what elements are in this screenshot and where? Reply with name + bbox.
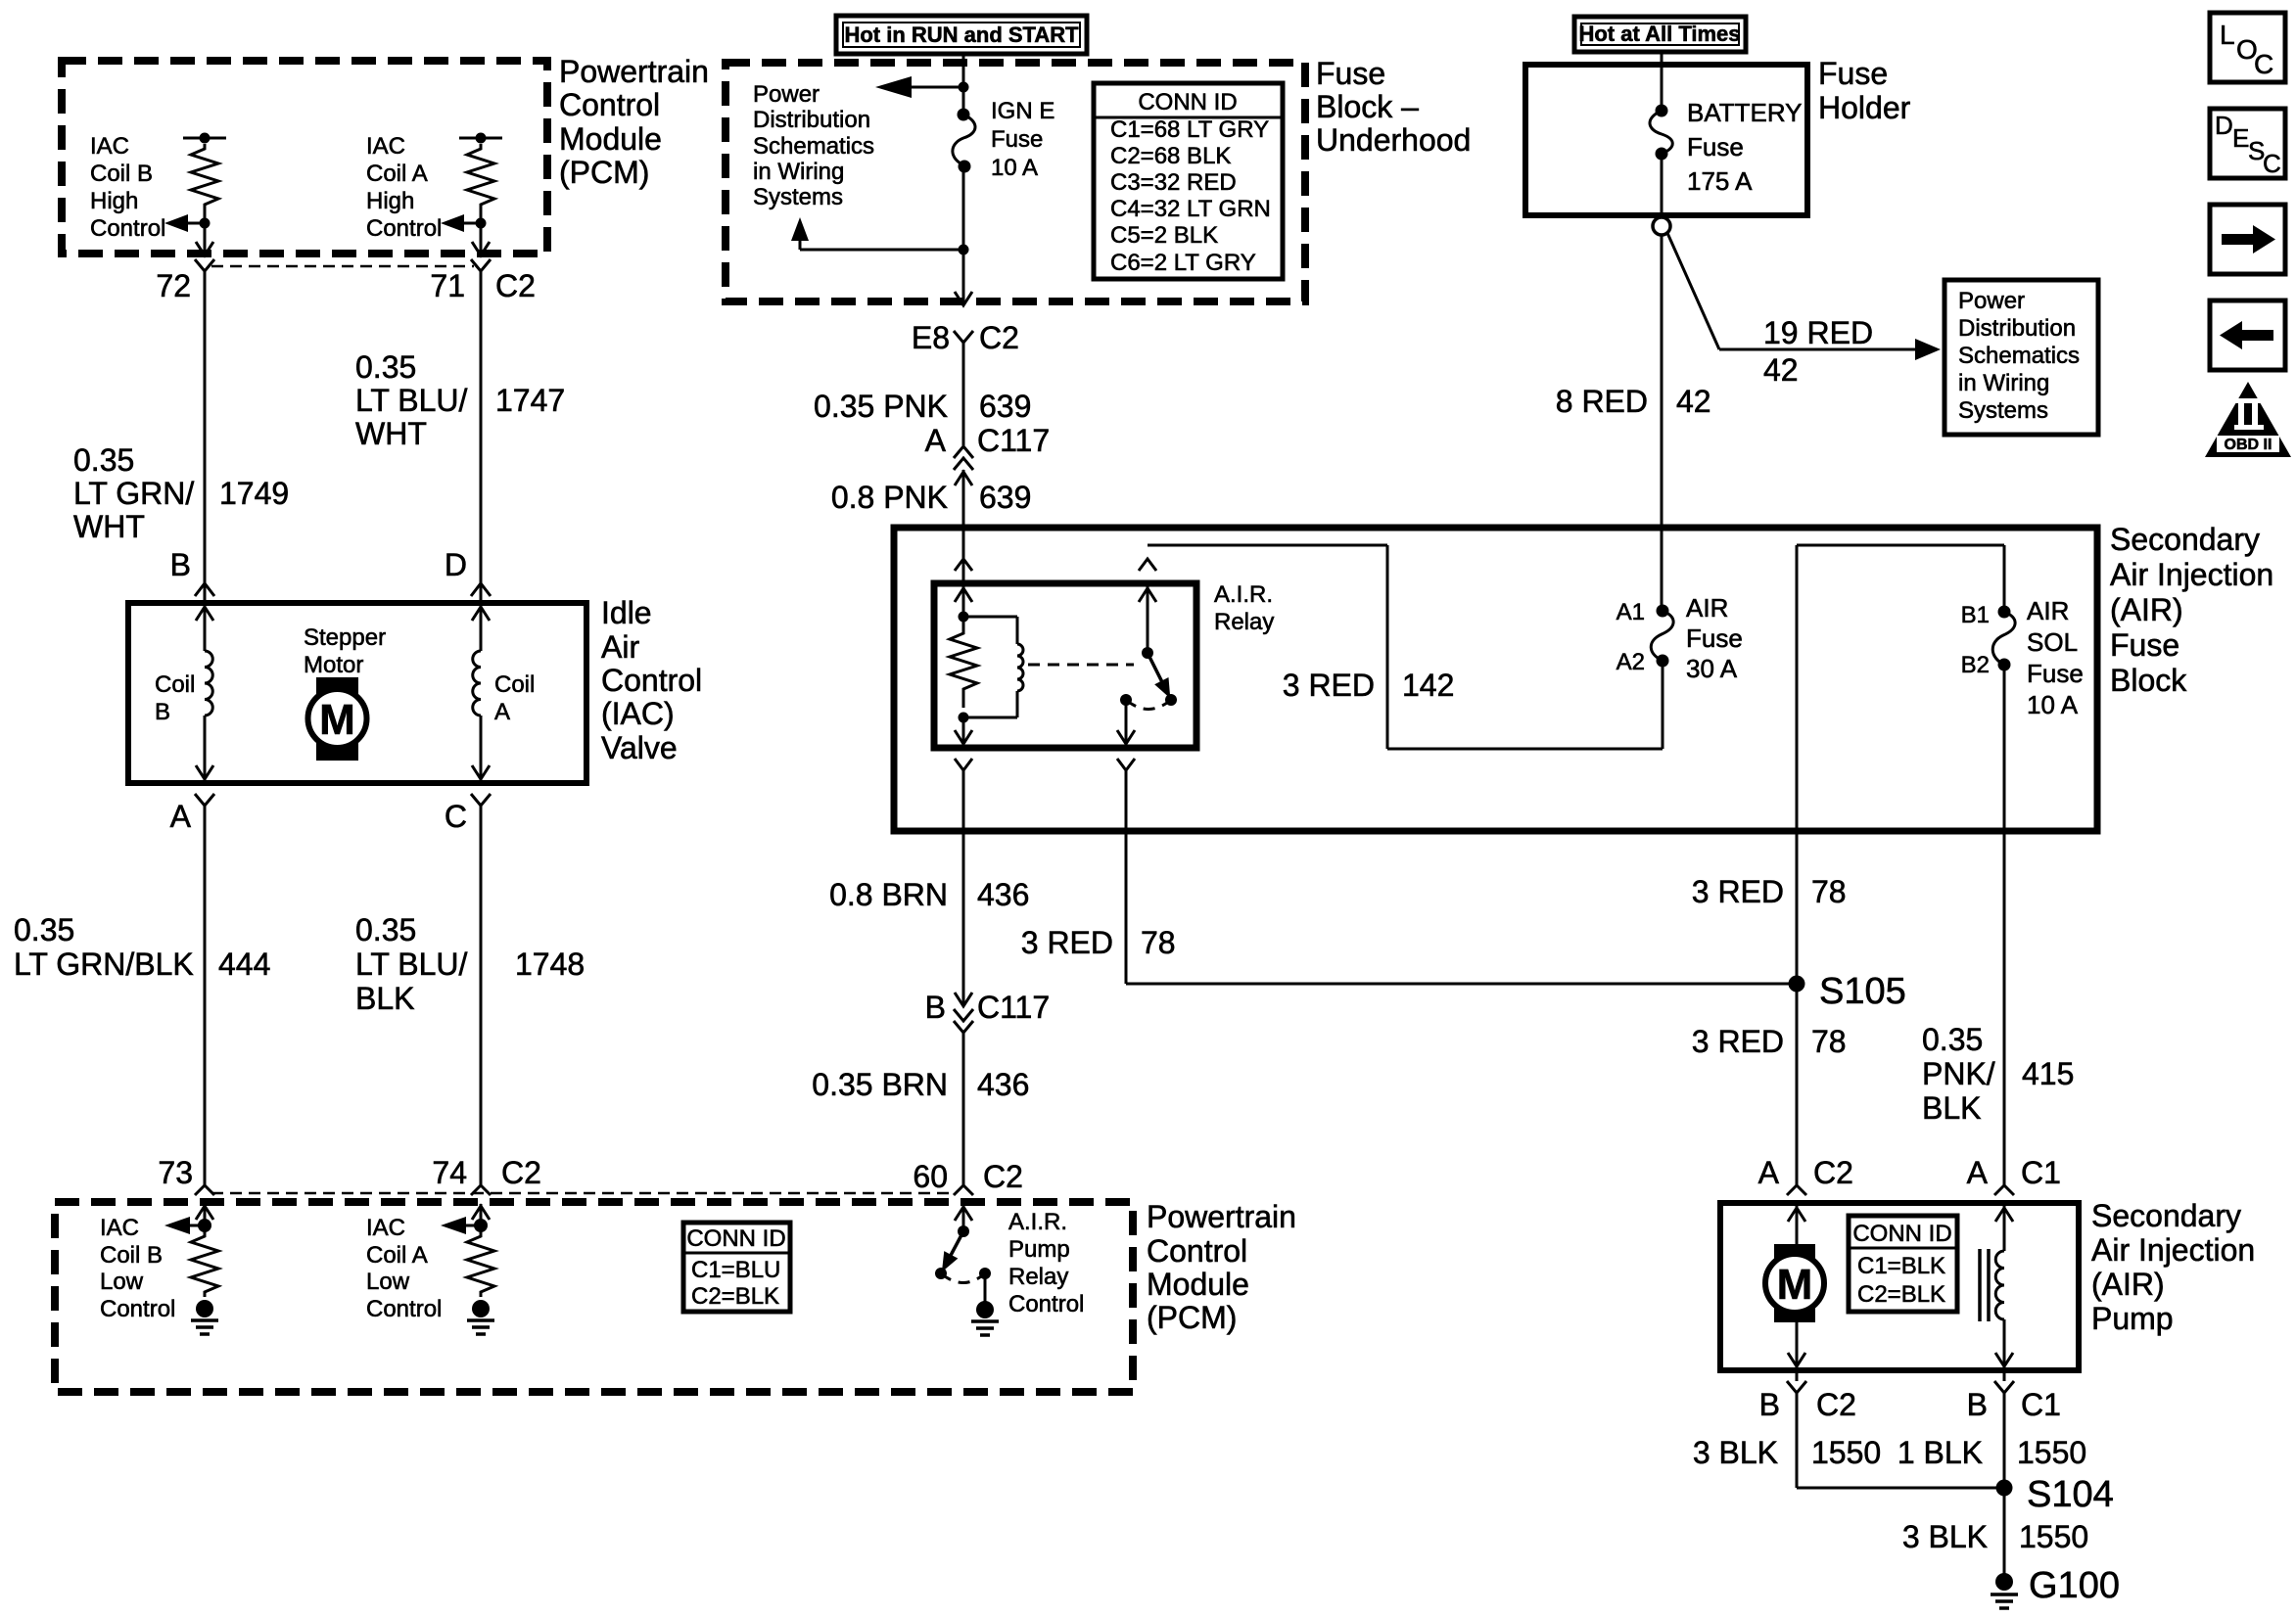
svg-text:Systems: Systems bbox=[753, 184, 843, 210]
svg-text:Fuse: Fuse bbox=[1818, 56, 1888, 91]
relay coil exit arrow bbox=[955, 717, 972, 748]
label Stepper Motor bbox=[304, 624, 386, 678]
svg-text:Low: Low bbox=[366, 1269, 410, 1295]
svg-text:S105: S105 bbox=[1819, 971, 1906, 1012]
svg-text:C: C bbox=[2254, 49, 2273, 79]
svg-text:71: 71 bbox=[430, 268, 465, 303]
Secondary Air Injection (AIR) Fuse Block box bbox=[894, 528, 2097, 831]
svg-text:Control: Control bbox=[1147, 1233, 1247, 1269]
svg-text:Secondary: Secondary bbox=[2110, 522, 2260, 557]
A.I.R. relay box bbox=[934, 583, 1196, 748]
relay coil circuit: entry arrow bbox=[955, 583, 972, 623]
connector E8 / C2 bbox=[912, 320, 1019, 355]
svg-text:Block: Block bbox=[2110, 663, 2187, 698]
pump solenoid feed arrow (C1) bbox=[1995, 1203, 2013, 1251]
svg-text:Holder: Holder bbox=[1818, 90, 1911, 125]
wire 1749 (72 to B) bbox=[73, 271, 289, 601]
svg-text:B: B bbox=[155, 699, 170, 725]
svg-text:444: 444 bbox=[218, 947, 270, 982]
arrow: power distribution link (left) bbox=[875, 76, 969, 98]
svg-text:A: A bbox=[1967, 1155, 1989, 1190]
svg-text:in Wiring: in Wiring bbox=[1958, 370, 2049, 396]
wire 1550 (3 BLK) to ground bbox=[1902, 1519, 2088, 1554]
wire fuse to junction ring bbox=[1661, 154, 1663, 217]
svg-text:Hot at All Times: Hot at All Times bbox=[1578, 22, 1740, 46]
svg-text:Coil B: Coil B bbox=[90, 161, 153, 187]
connector C2 pin A (pump) bbox=[1758, 1155, 1853, 1195]
svg-text:B2: B2 bbox=[1961, 652, 1990, 678]
connector chevron below relay (switch) bbox=[1117, 759, 1135, 770]
svg-text:BLK: BLK bbox=[355, 981, 414, 1016]
svg-text:Fuse: Fuse bbox=[2027, 659, 2084, 688]
wire: relay coil output to PCM (inside box) bbox=[962, 770, 965, 1006]
svg-text:0.35 BRN: 0.35 BRN bbox=[812, 1067, 948, 1102]
svg-text:C117: C117 bbox=[977, 990, 1050, 1025]
Secondary Air Injection (AIR) Pump box bbox=[1720, 1203, 2079, 1370]
svg-text:(PCM): (PCM) bbox=[1147, 1300, 1237, 1335]
svg-text:1748: 1748 bbox=[515, 947, 585, 982]
label: A.I.R. Relay bbox=[1214, 581, 1274, 635]
svg-text:E: E bbox=[2232, 123, 2249, 153]
CONN ID table (PCM) bbox=[683, 1223, 790, 1312]
svg-text:C3=32 RED: C3=32 RED bbox=[1110, 169, 1237, 196]
svg-text:1747: 1747 bbox=[495, 383, 565, 418]
wire 415 (0.35 PNK/BLK) bbox=[1922, 1022, 2074, 1126]
wire 42 (19 RED) to power distribution bbox=[1667, 233, 1941, 388]
svg-text:A: A bbox=[1758, 1155, 1780, 1190]
svg-text:142: 142 bbox=[1402, 668, 1454, 703]
svg-text:High: High bbox=[90, 188, 138, 214]
label: Fuse Holder bbox=[1818, 56, 1911, 125]
wire Hot to battery fuse bbox=[1661, 52, 1663, 111]
svg-text:73: 73 bbox=[158, 1155, 193, 1190]
wire: pin 72 exit with arrow bbox=[196, 223, 213, 255]
label: IAC Coil A High Control bbox=[366, 133, 442, 242]
svg-text:0.8 BRN: 0.8 BRN bbox=[829, 877, 948, 912]
svg-text:175 A: 175 A bbox=[1687, 166, 1753, 196]
svg-text:78: 78 bbox=[1811, 1024, 1847, 1059]
label: IAC Coil B High Control bbox=[90, 133, 165, 242]
wire: pin 71 exit with arrow bbox=[472, 223, 490, 255]
wire 1748 (C to 74) bbox=[355, 806, 585, 1185]
svg-text:SOL: SOL bbox=[2027, 627, 2078, 657]
svg-text:C2=BLK: C2=BLK bbox=[1857, 1281, 1945, 1308]
svg-text:A.I.R.: A.I.R. bbox=[1214, 581, 1273, 608]
svg-text:Fuse: Fuse bbox=[991, 126, 1043, 153]
wire 78 (3 RED) above S105 bbox=[1692, 874, 1847, 909]
svg-text:74: 74 bbox=[432, 1155, 467, 1190]
svg-text:Hot in RUN and START: Hot in RUN and START bbox=[844, 23, 1079, 47]
label: IAC Coil B Low Control bbox=[100, 1215, 175, 1322]
wire pin 73 entry arrow bbox=[196, 1204, 213, 1232]
svg-text:B: B bbox=[1759, 1387, 1780, 1422]
svg-text:0.35 PNK: 0.35 PNK bbox=[814, 389, 948, 424]
svg-text:Relay: Relay bbox=[1214, 609, 1274, 635]
svg-text:IAC: IAC bbox=[366, 1215, 405, 1241]
relay switch output arrow bbox=[1117, 700, 1135, 748]
svg-text:3 RED: 3 RED bbox=[1692, 874, 1784, 909]
coil A of IAC valve bbox=[472, 603, 490, 783]
arrow: Coil A High Control output bbox=[441, 214, 481, 232]
svg-text:8 RED: 8 RED bbox=[1556, 384, 1648, 419]
label: BATTERY Fuse 175 A bbox=[1687, 98, 1803, 196]
relay switch bbox=[1120, 583, 1177, 710]
svg-text:BATTERY: BATTERY bbox=[1687, 98, 1803, 127]
connector chevron below relay (coil) bbox=[955, 759, 972, 770]
svg-text:Distribution: Distribution bbox=[753, 107, 870, 133]
ground G100 bbox=[1991, 1565, 2120, 1608]
label: AIR SOL Fuse 10 A bbox=[2027, 596, 2084, 719]
label Coil B bbox=[155, 671, 195, 725]
wire 436 (0.35 BRN) bbox=[812, 1033, 1029, 1185]
svg-text:Control: Control bbox=[90, 215, 165, 242]
wire B2 output down bbox=[2003, 665, 2006, 1185]
svg-text:Control: Control bbox=[100, 1296, 175, 1322]
svg-text:Control: Control bbox=[1008, 1291, 1084, 1317]
pump motor feed arrow (C2) bbox=[1788, 1203, 1805, 1244]
svg-text:Power: Power bbox=[1958, 288, 2025, 314]
svg-text:High: High bbox=[366, 188, 414, 214]
svg-text:Coil: Coil bbox=[494, 671, 535, 698]
svg-text:Underhood: Underhood bbox=[1316, 122, 1471, 158]
PCM bottom dashed box bbox=[55, 1202, 1133, 1392]
relay actuation dashed link bbox=[1028, 664, 1134, 667]
terminal C of IAC valve bbox=[445, 794, 491, 834]
connector chevron above relay (switch feed) bbox=[1139, 559, 1156, 571]
svg-text:C1: C1 bbox=[2021, 1155, 2061, 1190]
fuse AIR 30 A bbox=[1617, 599, 1673, 675]
svg-text:CONN ID: CONN ID bbox=[686, 1225, 785, 1252]
svg-text:C1: C1 bbox=[2021, 1387, 2061, 1422]
wire 78 (3 RED) to S105 bbox=[1021, 925, 1797, 984]
motor M (AIR pump) bbox=[1765, 1244, 1824, 1322]
ground (A.I.R. pump relay control) bbox=[971, 1273, 999, 1335]
svg-text:(AIR): (AIR) bbox=[2091, 1267, 2165, 1302]
wire: relay switch output down bbox=[1125, 770, 1128, 984]
svg-text:3 BLK: 3 BLK bbox=[1693, 1435, 1778, 1470]
svg-text:Control: Control bbox=[366, 215, 442, 242]
svg-text:Block –: Block – bbox=[1316, 89, 1419, 124]
CONN ID table (pump) bbox=[1849, 1216, 1957, 1312]
svg-text:0.35: 0.35 bbox=[355, 912, 416, 947]
wire 60 entry to PCM bbox=[955, 1204, 972, 1231]
svg-text:C117: C117 bbox=[977, 423, 1050, 458]
wire A2 to 142 path bbox=[1662, 661, 1664, 749]
connector C117 A bbox=[925, 423, 1050, 485]
svg-text:72: 72 bbox=[156, 268, 191, 303]
svg-text:3 RED: 3 RED bbox=[1692, 1024, 1784, 1059]
svg-text:Motor: Motor bbox=[304, 652, 363, 678]
resistor IAC Coil A High (PCM internal) bbox=[459, 133, 502, 229]
svg-text:1550: 1550 bbox=[2019, 1519, 2088, 1554]
svg-text:A1: A1 bbox=[1617, 599, 1645, 625]
svg-text:Fuse: Fuse bbox=[1686, 624, 1743, 653]
Fuse Block - Underhood dashed box bbox=[726, 63, 1305, 301]
svg-text:60: 60 bbox=[913, 1159, 948, 1194]
svg-text:C2: C2 bbox=[501, 1155, 541, 1190]
svg-text:78: 78 bbox=[1811, 874, 1847, 909]
svg-text:IAC: IAC bbox=[100, 1215, 139, 1241]
wire 639 (0.8 PNK) bbox=[831, 470, 1032, 583]
svg-text:Module: Module bbox=[1147, 1267, 1249, 1302]
svg-text:Control: Control bbox=[366, 1296, 442, 1322]
svg-text:Control: Control bbox=[559, 87, 660, 122]
svg-text:C4=32 LT GRN: C4=32 LT GRN bbox=[1110, 196, 1271, 222]
wire IGN E fuse output bbox=[959, 166, 969, 301]
svg-text:Air Injection: Air Injection bbox=[2091, 1232, 2255, 1268]
splice S104 bbox=[1996, 1474, 2114, 1515]
label: Powertrain Control Module (PCM) top bbox=[559, 54, 709, 190]
resistor IAC Coil B Low bbox=[191, 1225, 218, 1297]
Hot in RUN and START box bbox=[836, 16, 1087, 54]
svg-text:IGN E: IGN E bbox=[991, 98, 1054, 124]
ground (IAC Coil B Low) bbox=[191, 1300, 218, 1334]
connector C1 pin A (pump) bbox=[1967, 1155, 2061, 1195]
wire 1550 (3 BLK) from pump motor bbox=[1693, 1393, 2004, 1488]
connector C2 pin 73 bbox=[158, 1155, 214, 1195]
wire 639 (0.35 PNK) bbox=[814, 343, 1031, 445]
junction ring node bbox=[1653, 217, 1670, 235]
svg-text:M: M bbox=[319, 696, 355, 744]
svg-text:3 BLK: 3 BLK bbox=[1902, 1519, 1988, 1554]
svg-text:B: B bbox=[1967, 1387, 1988, 1422]
svg-text:Powertrain: Powertrain bbox=[1147, 1199, 1296, 1234]
svg-text:C2: C2 bbox=[495, 268, 536, 303]
label: Secondary Air Injection (AIR) Pump bbox=[2091, 1198, 2255, 1336]
wire 78 (3 RED) below S105 bbox=[1692, 1024, 1847, 1059]
svg-text:A: A bbox=[494, 699, 510, 725]
svg-text:C2: C2 bbox=[983, 1159, 1023, 1194]
svg-text:LT GRN/BLK: LT GRN/BLK bbox=[14, 947, 194, 982]
arrow: power distribution link (lower) bbox=[791, 217, 963, 250]
DESC icon bbox=[2210, 109, 2285, 178]
svg-text:C: C bbox=[2263, 149, 2281, 178]
svg-text:AIR: AIR bbox=[2027, 596, 2069, 625]
svg-text:1749: 1749 bbox=[219, 476, 289, 511]
svg-text:C1=BLK: C1=BLK bbox=[1857, 1253, 1945, 1279]
svg-text:(PCM): (PCM) bbox=[559, 155, 649, 190]
IAC valve box bbox=[128, 603, 586, 783]
svg-text:C6=2 LT GRY: C6=2 LT GRY bbox=[1110, 250, 1256, 276]
svg-text:CONN ID: CONN ID bbox=[1852, 1221, 1951, 1247]
svg-text:in Wiring: in Wiring bbox=[753, 159, 844, 185]
svg-text:WHT: WHT bbox=[73, 509, 145, 544]
label: IAC Coil A Low Control bbox=[366, 1215, 442, 1322]
svg-text:Air: Air bbox=[601, 629, 639, 665]
svg-text:436: 436 bbox=[977, 877, 1029, 912]
svg-text:Relay: Relay bbox=[1008, 1264, 1068, 1290]
wire 42 (8 RED) battery feed bbox=[1556, 235, 1711, 528]
svg-text:10 A: 10 A bbox=[2027, 690, 2079, 719]
OBD II icon bbox=[2205, 382, 2291, 457]
svg-text:D: D bbox=[2215, 111, 2233, 140]
svg-text:Fuse: Fuse bbox=[2110, 627, 2179, 663]
resistor IAC Coil A Low bbox=[467, 1225, 494, 1297]
svg-text:Pump: Pump bbox=[2091, 1301, 2174, 1336]
svg-text:Control: Control bbox=[601, 663, 702, 698]
Hot at All Times box bbox=[1574, 17, 1746, 52]
svg-text:B: B bbox=[925, 990, 946, 1025]
svg-text:BLK: BLK bbox=[1922, 1090, 1981, 1126]
svg-text:C1=BLU: C1=BLU bbox=[691, 1257, 780, 1283]
fuse BATTERY 175 A bbox=[1650, 105, 1672, 161]
svg-text:3 RED: 3 RED bbox=[1021, 925, 1113, 960]
pump solenoid output arrow bbox=[1995, 1319, 2013, 1370]
svg-text:Systems: Systems bbox=[1958, 397, 2048, 424]
label: Power Distribution Schematics in Wiring Systems (fuse block) bbox=[753, 81, 874, 210]
svg-text:639: 639 bbox=[979, 389, 1031, 424]
svg-text:0.35: 0.35 bbox=[355, 349, 416, 385]
svg-text:E8: E8 bbox=[912, 320, 950, 355]
svg-text:30 A: 30 A bbox=[1686, 654, 1738, 683]
svg-text:Schematics: Schematics bbox=[1958, 343, 2080, 369]
svg-text:436: 436 bbox=[977, 1067, 1029, 1102]
connector C1 pin B (pump) bbox=[1967, 1370, 2061, 1422]
svg-text:Idle: Idle bbox=[601, 595, 652, 630]
label: A.I.R. Pump Relay Control bbox=[1008, 1209, 1084, 1317]
svg-text:0.35: 0.35 bbox=[14, 912, 74, 947]
svg-text:AIR: AIR bbox=[1686, 593, 1728, 623]
svg-text:10 A: 10 A bbox=[991, 155, 1038, 181]
svg-text:C2: C2 bbox=[1813, 1155, 1853, 1190]
pump motor output arrow bbox=[1788, 1322, 1805, 1370]
svg-text:LT BLU/: LT BLU/ bbox=[355, 383, 468, 418]
connector C2 pin 60 bbox=[913, 1159, 1023, 1195]
label: Idle Air Control (IAC) Valve bbox=[601, 595, 702, 765]
svg-text:0.35: 0.35 bbox=[1922, 1022, 1983, 1057]
svg-text:IAC: IAC bbox=[90, 133, 129, 160]
relay coil winding bbox=[959, 617, 1024, 723]
PCM top dashed box bbox=[62, 61, 547, 254]
svg-text:Schematics: Schematics bbox=[753, 133, 874, 160]
svg-text:19 RED: 19 RED bbox=[1763, 315, 1873, 350]
motor M (stepper) bbox=[308, 677, 367, 761]
svg-text:IAC: IAC bbox=[366, 133, 405, 160]
svg-text:Powertrain: Powertrain bbox=[559, 54, 709, 89]
svg-text:L: L bbox=[2220, 20, 2235, 50]
label: AIR Fuse 30 A bbox=[1686, 593, 1743, 683]
connector chevron above relay (coil feed) bbox=[955, 559, 972, 571]
label: IGN E Fuse 10 A bbox=[991, 98, 1054, 181]
connector C2 pin 71 bbox=[430, 259, 536, 303]
arrow: Coil A Low Control bbox=[441, 1217, 481, 1234]
svg-text:Fuse: Fuse bbox=[1687, 132, 1744, 162]
label: Fuse Block - Underhood bbox=[1316, 56, 1471, 158]
svg-text:0.35: 0.35 bbox=[73, 442, 134, 478]
svg-text:Valve: Valve bbox=[601, 730, 678, 765]
solenoid coil (pump) bbox=[1980, 1249, 2004, 1321]
svg-text:G100: G100 bbox=[2029, 1565, 2120, 1606]
resistor IAC Coil B High (PCM internal) bbox=[183, 133, 226, 229]
terminal D of IAC valve bbox=[445, 547, 491, 596]
svg-text:C: C bbox=[445, 799, 467, 834]
svg-text:Air Injection: Air Injection bbox=[2110, 557, 2273, 592]
svg-text:1550: 1550 bbox=[1811, 1435, 1881, 1470]
right arrow icon bbox=[2210, 205, 2285, 274]
svg-text:A.I.R.: A.I.R. bbox=[1008, 1209, 1067, 1235]
svg-text:A: A bbox=[925, 423, 947, 458]
wire 436 (0.8 BRN) bbox=[829, 877, 1029, 912]
svg-text:CONN ID: CONN ID bbox=[1138, 89, 1237, 115]
switch: A.I.R. pump relay control (PCM internal) bbox=[935, 1225, 991, 1283]
svg-text:Module: Module bbox=[559, 121, 662, 157]
svg-text:(IAC): (IAC) bbox=[601, 696, 675, 731]
svg-text:Stepper: Stepper bbox=[304, 624, 386, 651]
coil B of IAC valve bbox=[196, 603, 213, 783]
svg-text:Coil A: Coil A bbox=[366, 161, 428, 187]
svg-text:C5=2 BLK: C5=2 BLK bbox=[1110, 222, 1218, 249]
arrow: E8 exit of fuse block bbox=[955, 292, 972, 305]
wire 1550 (1 BLK) from solenoid bbox=[1898, 1393, 2086, 1574]
ground (IAC Coil A Low) bbox=[467, 1300, 494, 1334]
svg-text:C2=BLK: C2=BLK bbox=[691, 1283, 779, 1310]
svg-text:Coil A: Coil A bbox=[366, 1242, 428, 1269]
connector C117 B bbox=[925, 990, 1050, 1033]
wire B fuse feed (horizontal) bbox=[1797, 545, 2004, 1185]
svg-text:0.8 PNK: 0.8 PNK bbox=[831, 480, 948, 515]
arrow: Coil B Low Control bbox=[164, 1217, 205, 1234]
svg-text:Low: Low bbox=[100, 1269, 144, 1295]
svg-text:LT BLU/: LT BLU/ bbox=[355, 947, 468, 982]
svg-text:C2: C2 bbox=[979, 320, 1019, 355]
label: Powertrain Control Module (PCM) bottom bbox=[1147, 1199, 1296, 1335]
svg-text:639: 639 bbox=[979, 480, 1031, 515]
svg-text:PNK/: PNK/ bbox=[1922, 1056, 1995, 1091]
svg-text:LT GRN/: LT GRN/ bbox=[73, 476, 194, 511]
resistor (relay internal) bbox=[950, 617, 977, 708]
svg-text:Fuse: Fuse bbox=[1316, 56, 1385, 91]
svg-text:Coil B: Coil B bbox=[100, 1242, 163, 1269]
arrow: Coil B High Control output bbox=[164, 214, 205, 232]
Fuse Holder box bbox=[1525, 65, 1807, 215]
Power Distribution Schematics box (right) bbox=[1945, 280, 2098, 435]
connector C2 pin 74 bbox=[432, 1155, 541, 1195]
wire battery feed inside fuse block bbox=[1661, 528, 1663, 611]
svg-text:Power: Power bbox=[753, 81, 820, 108]
svg-text:D: D bbox=[445, 547, 467, 582]
svg-text:A: A bbox=[170, 799, 192, 834]
wire pin 74 entry arrow bbox=[472, 1204, 490, 1232]
fuse AIR SOL 10 A bbox=[1961, 545, 2015, 678]
connector C2 pin B (pump) bbox=[1759, 1370, 1856, 1422]
svg-text:Coil: Coil bbox=[155, 671, 195, 698]
svg-text:42: 42 bbox=[1676, 384, 1711, 419]
left arrow icon bbox=[2210, 300, 2285, 370]
svg-text:1550: 1550 bbox=[2017, 1435, 2086, 1470]
wire 444 (A to 73) bbox=[14, 806, 270, 1185]
splice S105 bbox=[1789, 971, 1906, 1012]
svg-text:Distribution: Distribution bbox=[1958, 315, 2076, 342]
svg-text:3 RED: 3 RED bbox=[1283, 668, 1375, 703]
wire 1747 (71 to D) bbox=[355, 271, 565, 601]
svg-text:S104: S104 bbox=[2027, 1474, 2114, 1515]
terminal B of IAC valve bbox=[170, 547, 214, 596]
svg-text:1 BLK: 1 BLK bbox=[1898, 1435, 1983, 1470]
svg-text:415: 415 bbox=[2022, 1056, 2074, 1091]
connector boundary dashed line (bottom) bbox=[211, 1192, 952, 1195]
svg-text:B: B bbox=[170, 547, 191, 582]
svg-text:OBD II: OBD II bbox=[2225, 437, 2273, 453]
svg-text:B1: B1 bbox=[1961, 602, 1990, 628]
wire from Hot box into fuse block bbox=[962, 52, 965, 115]
LOC icon bbox=[2210, 13, 2285, 82]
wire 142 (3 RED) feed to relay switch bbox=[1148, 545, 1663, 749]
svg-text:Pump: Pump bbox=[1008, 1236, 1070, 1263]
svg-text:Secondary: Secondary bbox=[2091, 1198, 2241, 1233]
fuse IGN E 10 A bbox=[953, 109, 975, 173]
label Coil A bbox=[494, 671, 535, 725]
label: Secondary Air Injection (AIR) Fuse Block bbox=[2110, 522, 2273, 698]
